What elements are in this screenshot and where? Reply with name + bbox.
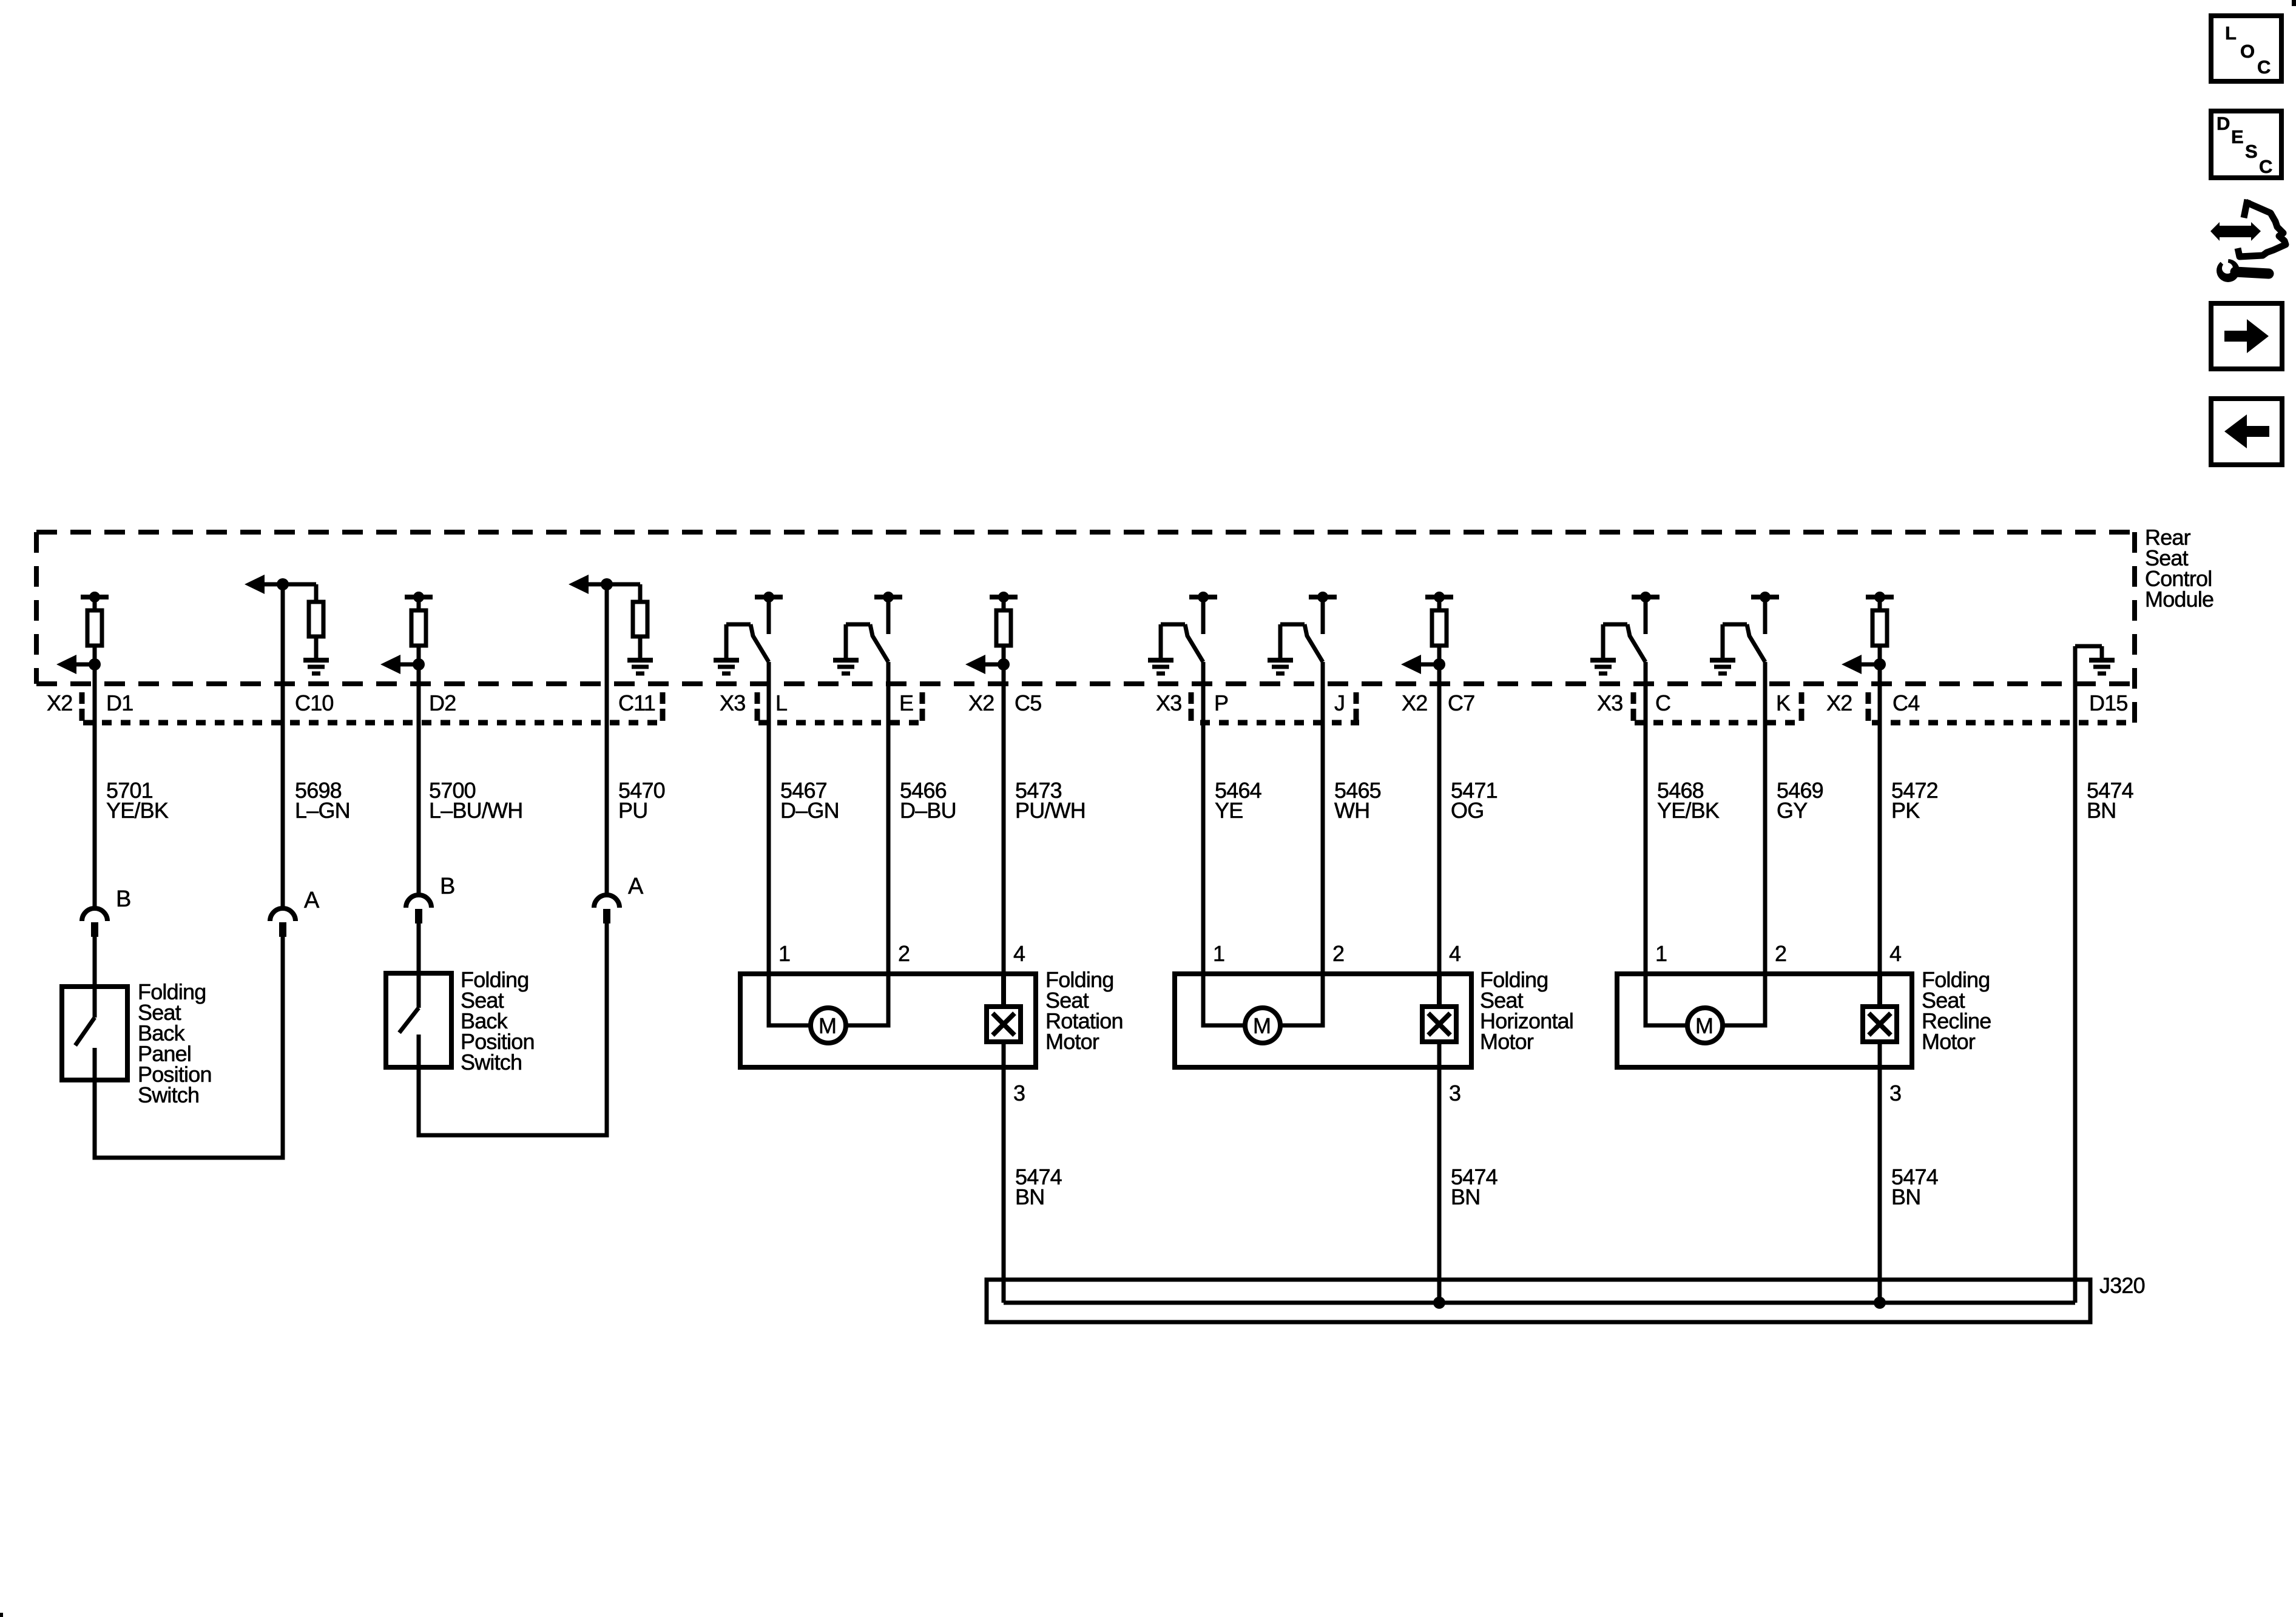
connector label separators <box>82 692 1868 721</box>
Folding Seat Rotation Motor thermal protector (X box) <box>987 971 1021 1070</box>
resistor to ground inside module for pin C10 <box>283 584 323 659</box>
ground symbol for switch at pin P <box>1148 660 1173 673</box>
label pin D2 <box>429 690 456 715</box>
page corner mark top right <box>2292 0 2296 6</box>
svg-text:WH: WH <box>1334 798 1369 823</box>
svg-text:2: 2 <box>1775 941 1786 966</box>
resistor inside module above pin D2 <box>405 592 433 684</box>
label pin C7 <box>1448 690 1474 715</box>
ground symbol for pin C10 resistor <box>303 660 329 673</box>
junction dot C4 wire on splice <box>1874 1297 1886 1309</box>
wire from pin C5 <box>1002 684 1006 1007</box>
Folding Seat Recline Motor pin numbers 1 2 4 <box>1655 941 1901 966</box>
page corner mark bottom left <box>0 1613 3 1617</box>
Folding Seat Rotation Motor box <box>740 974 1036 1067</box>
junction dot + left arrow at top of pin C11 wire <box>569 575 613 594</box>
label pin D1 <box>106 690 133 715</box>
svg-text:4: 4 <box>1449 941 1460 966</box>
wire label 5470 PU on pin C11 wire <box>618 778 665 823</box>
svg-text:D: D <box>2217 113 2230 134</box>
svg-text:Module: Module <box>2145 587 2213 612</box>
svg-text:X2: X2 <box>968 690 994 715</box>
switch to ground inside module at pin P <box>1161 592 1217 684</box>
DESC icon box <box>2211 111 2281 178</box>
svg-text:A: A <box>628 874 644 899</box>
wire label 5474 BN below Folding Seat Horizontal Motor <box>1451 1164 1497 1209</box>
Folding Seat Back Position Switch box <box>386 973 451 1067</box>
wire label 5474 BN on pin D15 wire <box>2087 778 2133 823</box>
svg-text:D–BU: D–BU <box>900 798 956 823</box>
svg-text:1: 1 <box>778 941 790 966</box>
switch to ground inside module at pin C <box>1603 592 1660 684</box>
svg-text:E: E <box>2231 126 2244 147</box>
Folding Seat Recline Motor thermal protector (X box) <box>1863 971 1897 1070</box>
svg-text:Motor: Motor <box>1045 1029 1099 1054</box>
wire from pin C7 <box>1437 684 1442 1007</box>
resistor inside module above pin C7 <box>1425 592 1453 684</box>
label pin C4 <box>1893 690 1919 715</box>
label pin C5 <box>1015 690 1041 715</box>
junction dot + left arrow at pin C5 <box>965 655 1010 674</box>
Folding Seat Horizontal Motor box <box>1175 974 1471 1067</box>
wire label 5464 YE on pin P wire <box>1215 778 1261 823</box>
label pin J <box>1334 690 1345 715</box>
module box: Rear Seat Control Module (dashed outline) <box>36 532 2135 723</box>
svg-text:3: 3 <box>1449 1081 1460 1106</box>
label connector X3 group 3 <box>1156 690 1181 715</box>
wire label 5474 BN below Folding Seat Rotation Motor <box>1015 1164 1062 1209</box>
Folding Seat Rotation Motor M circle <box>811 1008 846 1043</box>
wire from pin C4 <box>1878 684 1882 1007</box>
terminal cup switch pin B (D1 side) <box>82 908 107 937</box>
Folding Seat Recline Motor label <box>1922 967 1991 1054</box>
svg-text:2: 2 <box>898 941 910 966</box>
label pin E <box>899 690 913 715</box>
junction dot + left arrow at pin C7 <box>1401 655 1445 674</box>
ground symbol for switch at pin C <box>1590 660 1616 673</box>
svg-text:3: 3 <box>1013 1081 1025 1106</box>
wrench <box>2216 255 2269 282</box>
svg-text:YE/BK: YE/BK <box>1657 798 1720 823</box>
switch 2 label <box>461 967 535 1075</box>
svg-text:PU/WH: PU/WH <box>1015 798 1086 823</box>
prev-page icon (left arrow box) <box>2211 399 2282 465</box>
svg-text:PK: PK <box>1891 798 1920 823</box>
ground symbol for switch at pin J <box>1268 660 1293 673</box>
next-page icon (right arrow box) <box>2211 303 2282 369</box>
resistor inside module above pin C4 <box>1866 592 1894 684</box>
wire from pin D1 <box>93 684 97 910</box>
ground symbol for pin C11 resistor <box>627 660 653 673</box>
svg-text:A: A <box>304 888 320 913</box>
svg-text:L–BU/WH: L–BU/WH <box>429 798 522 823</box>
label connector X3 group 2 <box>720 690 745 715</box>
wire label 5467 D–GN on pin L wire <box>780 778 839 823</box>
label connector X3 group 4 <box>1597 690 1622 715</box>
wire from pin K <box>1763 684 1768 971</box>
svg-text:3: 3 <box>1889 1081 1901 1106</box>
junction dot + left arrow at pin D2 <box>380 655 425 674</box>
svg-text:C10: C10 <box>295 690 334 715</box>
adjust icon (double arrow, outline, wrench) <box>2210 222 2261 241</box>
svg-text:M: M <box>1253 1013 1271 1038</box>
svg-text:1: 1 <box>1213 941 1224 966</box>
Folding Seat Horizontal Motor thermal protector (X box) <box>1422 971 1456 1070</box>
module name label <box>2145 525 2213 612</box>
junction dot + left arrow at pin D1 <box>56 655 101 674</box>
wire from pin E <box>886 684 891 971</box>
ground symbol inside module at pin D15 <box>2075 646 2115 673</box>
svg-text:P: P <box>1214 690 1228 715</box>
wire label 5474 BN below Folding Seat Recline Motor <box>1891 1164 1938 1209</box>
label pin K <box>1776 690 1791 715</box>
svg-text:C5: C5 <box>1015 690 1041 715</box>
wire label 5469 GY on pin K wire <box>1777 778 1823 823</box>
resistor inside module above pin C5 <box>990 592 1018 684</box>
svg-text:GY: GY <box>1777 798 1808 823</box>
wire label 5465 WH on pin J wire <box>1334 778 1381 823</box>
label connector X2 at C5 <box>968 690 994 715</box>
wire from pin D15 <box>2073 646 2078 1303</box>
Folding Seat Horizontal Motor armature wires <box>1203 971 1323 1025</box>
wire loop from switch 2 to pin A <box>419 923 607 1135</box>
svg-text:X3: X3 <box>1156 690 1181 715</box>
label connector X2 group 1 <box>47 690 72 715</box>
wire label 5466 D–BU on pin E wire <box>900 778 956 823</box>
Folding Seat Rotation Motor armature wires <box>769 971 888 1025</box>
svg-text:BN: BN <box>1451 1184 1480 1209</box>
svg-text:C: C <box>1655 690 1670 715</box>
svg-text:J: J <box>1334 690 1345 715</box>
svg-text:Motor: Motor <box>1480 1029 1534 1054</box>
svg-text:BN: BN <box>2087 798 2116 823</box>
switch to ground inside module at pin E <box>846 592 902 684</box>
svg-text:L: L <box>2225 22 2237 44</box>
resistor to ground inside module for pin C11 <box>607 584 647 659</box>
resistor inside module above pin D1 <box>81 592 109 684</box>
svg-text:D15: D15 <box>2089 690 2128 715</box>
svg-text:YE: YE <box>1215 798 1243 823</box>
junction dot C7 wire on splice <box>1433 1297 1445 1309</box>
svg-text:K: K <box>1776 690 1791 715</box>
wire label 5473 PU/WH on pin C5 wire <box>1015 778 1086 823</box>
svg-text:D–GN: D–GN <box>780 798 839 823</box>
terminal cup switch pin A (C10 side) <box>270 908 295 937</box>
svg-text:BN: BN <box>1015 1184 1044 1209</box>
label pin D15 <box>2089 690 2128 715</box>
switch 1 label <box>138 979 212 1107</box>
splice pack J320 outline <box>987 1280 2090 1322</box>
svg-text:Motor: Motor <box>1922 1029 1976 1054</box>
label pin C11 <box>618 690 655 715</box>
svg-text:2: 2 <box>1332 941 1344 966</box>
svg-text:M: M <box>1695 1013 1713 1038</box>
switch 2 internal contacts <box>399 923 419 1070</box>
svg-text:C11: C11 <box>618 690 655 715</box>
svg-text:J320: J320 <box>2099 1273 2145 1298</box>
ground symbol for switch at pin K <box>1710 660 1735 673</box>
svg-text:L: L <box>775 690 787 715</box>
junction dot + left arrow at pin C4 <box>1842 655 1886 674</box>
ground symbol for switch at pin L <box>714 660 739 673</box>
svg-text:E: E <box>899 690 913 715</box>
svg-text:X2: X2 <box>47 690 72 715</box>
connector row dashed line (bottom of connector blocks) <box>83 720 2135 726</box>
svg-text:C: C <box>2259 156 2272 177</box>
wire from pin P <box>1201 684 1206 971</box>
svg-text:B: B <box>116 886 131 912</box>
ground symbol for switch at pin E <box>833 660 859 673</box>
terminal cup switch pin A (C11 side) <box>594 895 620 923</box>
Folding Seat Recline Motor M circle <box>1687 1008 1723 1043</box>
wire from Folding Seat Rotation Motor pin 3 to splice <box>1002 1070 1006 1303</box>
svg-text:Switch: Switch <box>461 1050 522 1075</box>
svg-text:C4: C4 <box>1893 690 1919 715</box>
label connector X2 at C7 <box>1402 690 1427 715</box>
adjust icon outline shape <box>2238 200 2286 257</box>
wire from Folding Seat Recline Motor pin 3 to splice <box>1878 1070 1882 1303</box>
wire label 5471 OG on pin C7 wire <box>1451 778 1497 823</box>
svg-text:X3: X3 <box>720 690 745 715</box>
Folding Seat Horizontal Motor pin numbers 1 2 4 <box>1213 941 1460 966</box>
svg-text:4: 4 <box>1013 941 1025 966</box>
wire label 5698 L–GN on pin C10 wire <box>295 778 350 823</box>
wire loop from switch 1 to pin A <box>95 937 283 1158</box>
label pin P <box>1214 690 1228 715</box>
svg-text:L–GN: L–GN <box>295 798 350 823</box>
wire from pin D2 <box>417 684 421 897</box>
wire from pin L <box>767 684 771 971</box>
label pin C10 <box>295 690 334 715</box>
svg-text:B: B <box>440 874 455 899</box>
svg-text:D2: D2 <box>429 690 456 715</box>
LOC icon box <box>2211 16 2281 81</box>
svg-text:YE/BK: YE/BK <box>106 798 169 823</box>
wire from pin C11 <box>605 584 609 897</box>
svg-text:OG: OG <box>1451 798 1484 823</box>
Folding Seat Rotation Motor pin numbers 1 2 4 <box>778 941 1025 966</box>
svg-text:S: S <box>2245 141 2258 162</box>
switch to ground inside module at pin J <box>1280 592 1337 684</box>
Folding Seat Rotation Motor label <box>1045 967 1123 1054</box>
Folding Seat Recline Motor armature wires <box>1646 971 1765 1025</box>
label connector X2 at C4 <box>1826 690 1852 715</box>
wire from pin C10 <box>281 584 285 910</box>
wire label 5472 PK on pin C4 wire <box>1891 778 1938 823</box>
Folding Seat Horizontal Motor M circle <box>1245 1008 1280 1043</box>
svg-text:1: 1 <box>1655 941 1667 966</box>
svg-text:O: O <box>2240 41 2255 62</box>
svg-text:C: C <box>2257 56 2271 78</box>
wire from pin J <box>1321 684 1325 971</box>
wire label 5700 L–BU/WH on pin D2 wire <box>429 778 522 823</box>
Folding Seat Back Panel Position Switch box <box>62 987 127 1080</box>
junction dot + left arrow at top of pin C10 wire <box>245 575 289 594</box>
label pin C <box>1655 690 1670 715</box>
svg-text:X3: X3 <box>1597 690 1622 715</box>
wire label 5468 YE/BK on pin C wire <box>1657 778 1720 823</box>
svg-text:X2: X2 <box>1826 690 1852 715</box>
svg-text:M: M <box>819 1013 836 1038</box>
wire from pin C <box>1644 684 1648 971</box>
wire label 5701 YE/BK on pin D1 wire <box>106 778 169 823</box>
svg-text:4: 4 <box>1889 941 1901 966</box>
svg-text:C7: C7 <box>1448 690 1474 715</box>
svg-text:BN: BN <box>1891 1184 1920 1209</box>
terminal cup switch pin B (D2 side) <box>406 895 431 923</box>
switch to ground inside module at pin L <box>726 592 783 684</box>
svg-text:Switch: Switch <box>138 1082 199 1107</box>
Folding Seat Recline Motor box <box>1617 974 1912 1067</box>
Folding Seat Horizontal Motor label <box>1480 967 1573 1054</box>
svg-text:PU: PU <box>618 798 647 823</box>
splice bus wire inside J320 <box>1004 1301 2075 1305</box>
label pin L <box>775 690 787 715</box>
switch 1 internal contacts <box>75 937 95 1082</box>
svg-text:X2: X2 <box>1402 690 1427 715</box>
wire from Folding Seat Horizontal Motor pin 3 to splice <box>1437 1070 1442 1303</box>
switch to ground inside module at pin K <box>1723 592 1779 684</box>
svg-text:D1: D1 <box>106 690 133 715</box>
